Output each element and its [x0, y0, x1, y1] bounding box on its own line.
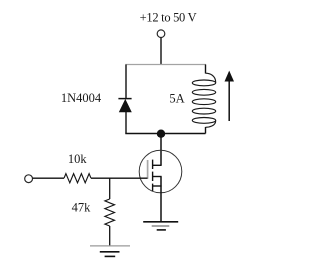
MOSFET Q1 gate bar — [147, 160, 149, 179]
inductor L1 coil — [192, 73, 215, 127]
wire junction to 47k — [109, 178, 111, 199]
wire VCC terminal to top rail — [160, 38, 162, 65]
ground G1 (under 47k) line 1 — [90, 245, 130, 247]
wire top rail (horizontal) — [125, 64, 206, 66]
ground G1 line 3 — [105, 255, 116, 257]
svg-text:1N4004: 1N4004 — [61, 91, 102, 105]
wire 10k to gate (through junction) — [91, 177, 148, 179]
diode D1 1N4004 anode triangle — [119, 100, 131, 112]
wire right branch lower (coil to bottom rail) — [205, 127, 207, 134]
wire bottom rail (horizontal) — [125, 133, 205, 135]
diode D1 1N4004 cathode bar — [118, 98, 131, 100]
ground G2 line 2 — [152, 225, 170, 227]
wire left branch lower (diode anode to bottom rail) — [125, 112, 127, 134]
ground G2 (source) line 1 — [143, 221, 178, 223]
ground G2 line 3 — [157, 229, 166, 231]
wire source lead to ground — [160, 177, 162, 222]
current arrow (up) head — [225, 71, 235, 82]
wire 47k to ground — [109, 226, 111, 246]
MOSFET Q1 body circle — [139, 150, 182, 193]
current arrow (up) shaft — [228, 81, 230, 121]
terminal VCC (open circle) — [157, 30, 165, 38]
svg-text:47k: 47k — [72, 201, 92, 215]
svg-text:5A: 5A — [169, 92, 184, 106]
resistor R2 47k zigzag — [105, 199, 115, 226]
svg-text:10k: 10k — [68, 152, 88, 166]
MOSFET Q1 bulk tap — [153, 176, 162, 178]
wire right branch upper (rail to coil) — [205, 65, 207, 74]
MOSFET Q1 channel dashes — [152, 160, 154, 191]
wire input to 10k — [33, 177, 64, 179]
MOSFET Q1 source tap — [153, 185, 162, 187]
resistor R1 10k zigzag — [64, 174, 91, 183]
svg-text:+12 to 50 V: +12 to 50 V — [140, 11, 197, 25]
terminal input (open circle) — [25, 175, 33, 183]
wire drain lead — [160, 134, 162, 166]
ground G1 line 2 — [100, 251, 120, 253]
wire left branch upper (to diode cathode) — [125, 65, 127, 99]
junction dot drain node — [157, 130, 165, 138]
MOSFET Q1 drain tap — [153, 164, 162, 166]
